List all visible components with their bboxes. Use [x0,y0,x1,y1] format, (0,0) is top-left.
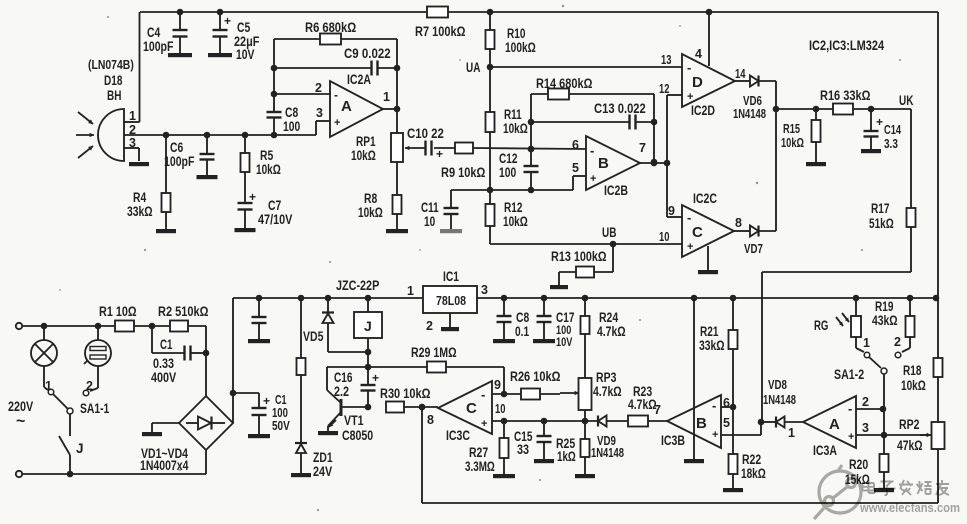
label IC3C pins [427,378,505,427]
resistor R2 [170,321,206,332]
svg-text:UA: UA [466,60,481,75]
wire VT1 base [341,404,371,411]
svg-text:-: - [687,60,691,75]
svg-text:ZD1: ZD1 [313,450,333,465]
label IC2D [691,103,715,118]
svg-text:R9 10kΩ: R9 10kΩ [441,165,486,180]
svg-text:10: 10 [495,402,505,416]
label C15 [514,429,533,457]
svg-text:0.1: 0.1 [515,324,530,339]
label C8 top [283,105,300,134]
svg-text:10kΩ: 10kΩ [358,205,383,220]
capacitor C14 [864,109,884,149]
svg-text:R19: R19 [875,299,893,314]
wire IC3C pin9 [492,367,521,397]
svg-text:3.3: 3.3 [884,137,898,151]
svg-text:+: + [224,14,231,28]
svg-text:14: 14 [735,67,745,81]
capacitor C8 top [267,112,282,135]
label R30 [380,386,431,401]
ground IC3B [684,459,704,463]
svg-text:2: 2 [86,379,93,393]
label R25 [556,436,576,464]
switch SA1-2 contact 1 [863,336,870,358]
svg-text:R12: R12 [504,200,522,215]
label C11 [421,200,439,229]
svg-text:C10 22: C10 22 [407,126,444,141]
label RP2 [897,417,923,453]
svg-text:C5: C5 [237,20,251,35]
svg-text:47/10V: 47/10V [258,212,292,227]
svg-text:+: + [848,431,854,443]
svg-text:4.7kΩ: 4.7kΩ [597,324,626,339]
wire +V rail right [477,295,939,302]
svg-text:12: 12 [659,82,669,96]
svg-text:R21: R21 [700,324,719,339]
ground C6 [197,175,218,179]
switch SA1-1 pole [53,394,73,414]
svg-text:+: + [687,241,693,253]
resistor R15 [812,109,821,162]
light arrows into RG [836,313,849,326]
ground C17 [533,339,555,343]
label IC2 IC3 LM324 [809,37,884,53]
wire pin7 to IC2D pin12 [667,95,682,163]
svg-text:VT1: VT1 [344,413,364,428]
svg-text:-: - [712,398,716,413]
wire UA to IC2D pin13 [490,66,682,68]
ground IC1 pin2 [441,313,459,331]
terminal 220V neutral [16,471,22,477]
label IC3A [813,443,837,458]
svg-text:R20: R20 [849,457,868,472]
svg-text:R6 680kΩ: R6 680kΩ [305,20,356,35]
svg-text:100: 100 [283,119,300,134]
resistor R12 [486,187,495,244]
label C13 [594,101,646,116]
label IC3C [446,428,470,443]
svg-text:R26 10kΩ: R26 10kΩ [510,369,561,384]
svg-text:D18: D18 [104,73,123,88]
resistor R9 [455,143,586,154]
label IC3B [661,433,685,448]
label IC3A pins [788,395,869,440]
label VD9 [591,434,624,460]
svg-text:100pF: 100pF [164,154,194,169]
switch SA1-1 contact 2 [83,379,93,396]
svg-text:78L08: 78L08 [436,293,466,308]
resistor R26 [521,389,560,400]
svg-text:10kΩ: 10kΩ [781,136,804,150]
label R4 [127,190,153,219]
svg-text:R7 100kΩ: R7 100kΩ [415,24,466,39]
svg-text:RP2: RP2 [899,417,919,432]
svg-text:C14: C14 [884,123,901,137]
capacitor C8 bottom [497,298,512,339]
resistor R21 [729,298,738,407]
svg-text:R1 10Ω: R1 10Ω [99,304,137,319]
svg-text:SA1-2: SA1-2 [834,367,864,382]
capacitor C4 [173,9,188,53]
ground C8 bottom [493,339,515,343]
label D18 [88,57,134,103]
ground filter cap [248,339,270,343]
resistor R27 [500,421,509,474]
label C9 [344,46,391,61]
label C10 [407,126,444,141]
node UA [466,49,493,112]
svg-text:220V: 220V [8,399,33,414]
svg-text:C12: C12 [499,151,517,166]
light arrows into D18 [76,112,94,158]
capacitor C10 [426,141,456,162]
svg-text:9: 9 [494,378,501,392]
ground bridge [142,423,179,436]
label J contact [76,441,84,456]
svg-text:8: 8 [735,216,742,230]
resistor R8 [393,162,402,229]
resistor R13 [559,244,613,285]
op-amp IC2C [682,205,734,257]
label C12 [499,151,517,180]
svg-text:2.2: 2.2 [334,384,349,399]
svg-text:A: A [341,98,352,115]
label R23 [628,384,661,417]
svg-text:C13 0.022: C13 0.022 [594,101,646,116]
svg-text:C1: C1 [160,337,173,352]
ground R13 [550,285,568,289]
label IC1 [407,269,488,333]
wire D18 pin2 node [124,132,316,139]
svg-text:~: ~ [16,413,25,430]
svg-text:C: C [466,400,477,417]
wire border R18 to RP2 [937,377,939,422]
svg-text:R10: R10 [507,26,525,41]
label R18 [901,363,926,393]
svg-text:RG: RG [814,318,828,333]
wire relay drive node [327,364,504,371]
svg-text:R18: R18 [903,363,922,378]
svg-text:+: + [712,429,718,441]
resistor above ZD1 [297,298,306,443]
svg-text:R30 10kΩ: R30 10kΩ [380,386,431,401]
op-amp IC3B [667,395,721,448]
svg-text:10kΩ: 10kΩ [351,148,376,163]
svg-text:3.3MΩ: 3.3MΩ [465,459,495,474]
svg-text:4.7kΩ: 4.7kΩ [593,384,622,399]
svg-text:51kΩ: 51kΩ [869,216,894,231]
label VD7 [744,242,763,256]
capacitor C6 [200,135,215,175]
label C8 bottom [515,310,530,339]
capacitor C7 [238,190,257,228]
ground VT1 emitter [318,431,338,435]
svg-text:1N4148: 1N4148 [591,446,624,460]
label IC2B [604,183,628,198]
svg-text:33: 33 [517,442,529,457]
wire AC top [22,323,155,330]
label RP3 [593,370,622,399]
resistor R1 [115,321,170,332]
svg-text:1: 1 [383,90,390,104]
capacitor C15 [537,421,552,459]
svg-text:VD5: VD5 [303,329,324,344]
svg-text:D: D [692,74,703,91]
label R22 [741,452,766,481]
ground C4 [168,53,192,57]
wire bridge to +V rail [230,298,237,423]
label IC2C pins [659,204,742,244]
terminal 220V live [16,323,22,329]
resistor R22 [729,407,738,488]
svg-text:100: 100 [272,406,288,420]
ground R25 [575,474,595,478]
lamp indicator [31,326,57,390]
svg-text:VD7: VD7 [744,242,763,256]
svg-text:www.elecfans.com: www.elecfans.com [859,501,960,515]
resistor R11 [486,112,495,190]
svg-text:50V: 50V [272,419,290,433]
wire D18 pin3 to ground [124,148,139,161]
wire R2 corner [203,326,210,396]
wire IC2A pin1 output [383,90,400,112]
svg-text:1N4148: 1N4148 [763,393,796,407]
capacitor C17 [537,298,552,339]
ground C1 50V [248,434,270,438]
resistor R4 [162,135,171,229]
resistor R18 [934,358,943,377]
label R16 [820,88,871,103]
label RG [814,318,828,333]
svg-text:3: 3 [481,283,488,297]
svg-text:43kΩ: 43kΩ [872,313,898,328]
svg-text:IC3B: IC3B [661,433,685,448]
svg-text:10kΩ: 10kΩ [503,121,528,136]
ground ZD1 [291,473,311,477]
label C1 50V [272,393,290,433]
resistor R29 [427,362,446,373]
resistor R25 [581,418,590,474]
label R6 [305,20,356,35]
label VT1 [342,413,373,443]
svg-text:1: 1 [863,336,870,350]
label C17 [556,310,574,349]
label VD1-VD4 [140,446,189,473]
svg-text:J: J [76,441,84,456]
resistor R6 [274,34,397,45]
label R12 [503,200,528,229]
svg-text:10V: 10V [236,47,254,62]
svg-text:J: J [364,318,372,334]
resistor R23 [628,416,667,427]
svg-text:UB: UB [602,225,617,240]
photodiode D18 [98,109,126,161]
svg-text:IC1: IC1 [443,269,459,284]
label R27 [465,445,495,474]
label R29 [411,345,457,360]
svg-text:+: + [249,190,256,204]
label C14 [884,123,901,151]
label R5 [256,148,281,177]
svg-text:7: 7 [654,403,661,417]
label R9 [441,165,486,180]
svg-text:2: 2 [894,335,901,349]
svg-text:100: 100 [499,165,516,180]
label R17 [869,201,894,231]
ground C14 [861,149,881,153]
svg-text:+: + [481,418,487,430]
svg-text:R2 510kΩ: R2 510kΩ [158,304,209,319]
wire right border from top rail [937,12,939,358]
svg-text:8: 8 [427,413,434,427]
svg-text:1: 1 [788,426,795,440]
svg-text:3: 3 [862,421,869,435]
svg-text:3: 3 [316,106,323,120]
capacitor C16 [361,367,380,407]
svg-text:-: - [590,143,594,158]
svg-text:R4: R4 [133,190,147,205]
diode VD6 [735,76,776,87]
svg-text:2: 2 [315,81,322,95]
label SA1-2 [834,367,864,382]
svg-text:10V: 10V [556,335,572,349]
svg-text:RP1: RP1 [356,134,376,149]
svg-text:1N4148: 1N4148 [733,107,766,121]
label C6 [164,140,194,169]
svg-text:13: 13 [661,53,671,67]
svg-text:4.7kΩ: 4.7kΩ [628,397,657,412]
label VD6 [733,94,766,121]
ground C7 [235,228,256,232]
label R26 [510,369,561,384]
svg-text:18kΩ: 18kΩ [741,466,766,481]
ground R22 [723,488,743,492]
wire border RP2 to bottom [937,449,939,503]
label RP1 [351,134,376,163]
svg-text:-: - [848,401,852,416]
ground R20 [874,488,894,492]
label R7 [415,24,466,39]
relay coil J [354,298,382,367]
svg-text:C: C [692,224,703,241]
svg-text:R16 33kΩ: R16 33kΩ [820,88,871,103]
switch SA1-1 contact 1 [45,379,54,395]
label R11 [503,107,528,136]
svg-text:1: 1 [129,109,136,123]
svg-text:9: 9 [668,204,675,218]
svg-text:47kΩ: 47kΩ [897,438,923,453]
label R10 [505,26,536,55]
wire IC2D pin4 to rail [706,9,713,66]
wire IC3C pin10 net [492,418,598,425]
label C7 [258,198,292,227]
svg-text:0.33: 0.33 [153,356,174,371]
label C4 [143,25,173,54]
svg-text:+: + [590,173,596,185]
photoresistor RG [851,298,864,352]
svg-text:C8: C8 [516,310,530,325]
label IC2D pins [659,47,745,96]
wire IC2B pin6 input [528,138,579,152]
wire node UB [490,225,682,247]
op-amp IC3A [803,396,856,448]
ground C15 [534,459,554,463]
svg-text:R17: R17 [871,201,889,216]
svg-text:R22: R22 [742,452,761,467]
wire IC3B pin5 [721,419,764,435]
svg-text:1: 1 [407,284,414,298]
wire SA1-2 to pin2 and R20 [881,374,888,454]
ground C11 [440,229,462,233]
svg-text:+: + [334,117,340,129]
label IC3B pins [723,396,730,430]
regulator IC1 78L08 [423,286,477,313]
label IC2C [693,191,717,206]
capacitor C9 [274,61,397,76]
resistor R17 [907,208,916,272]
neon indicator [84,326,111,391]
op-amp IC2D [682,54,735,107]
label R20 [845,457,870,487]
svg-text:33kΩ: 33kΩ [699,338,725,353]
svg-text:C16: C16 [334,370,353,385]
svg-text:R14 680kΩ: R14 680kΩ [536,76,593,91]
svg-text:+: + [436,147,443,161]
diode VD9 [598,416,628,427]
svg-text:SA1-1: SA1-1 [80,401,110,416]
wire AC bottom [22,450,206,477]
wire bottom feedback [419,404,938,503]
wire IC3B pin6 [721,404,736,411]
resistor R16 [833,104,853,115]
svg-text:C7: C7 [268,198,281,213]
svg-text:R8: R8 [364,191,378,206]
svg-text:RP3: RP3 [596,370,617,385]
svg-text:+: + [876,115,883,129]
svg-text:1N4007x4: 1N4007x4 [140,458,189,473]
svg-text:400V: 400V [151,370,176,385]
capacitor C1 50V [233,393,270,434]
resistor R7 [427,7,448,18]
svg-text:B: B [598,155,609,172]
svg-text:R27: R27 [469,445,488,460]
svg-text:2: 2 [862,395,869,409]
svg-text:IC3A: IC3A [813,443,837,458]
capacitor C11 [444,190,459,230]
wire R6 left vertical [271,39,278,112]
svg-text:C11: C11 [421,200,439,215]
resistor R24 [581,298,590,378]
svg-text:(LN074B): (LN074B) [88,57,134,72]
transistor VT1 [327,367,341,431]
label R1 [99,304,137,319]
resistor R19 [902,298,915,352]
svg-text:10kΩ: 10kΩ [503,214,528,229]
capacitor filter [252,298,267,339]
svg-text:4: 4 [695,47,702,61]
wire VD6 to detector node [773,81,780,231]
label R15 [781,122,804,150]
svg-text:-: - [481,387,485,402]
svg-text:IC2,IC3:LM324: IC2,IC3:LM324 [809,37,884,53]
svg-text:1kΩ: 1kΩ [557,449,576,464]
label C16 [334,370,353,399]
svg-text:VD6: VD6 [743,94,762,108]
wire rail stub through IC3B [693,298,695,459]
svg-text:C9 0.022: C9 0.022 [344,46,391,61]
svg-text:+: + [263,394,270,408]
label JZC-22P [336,278,379,293]
